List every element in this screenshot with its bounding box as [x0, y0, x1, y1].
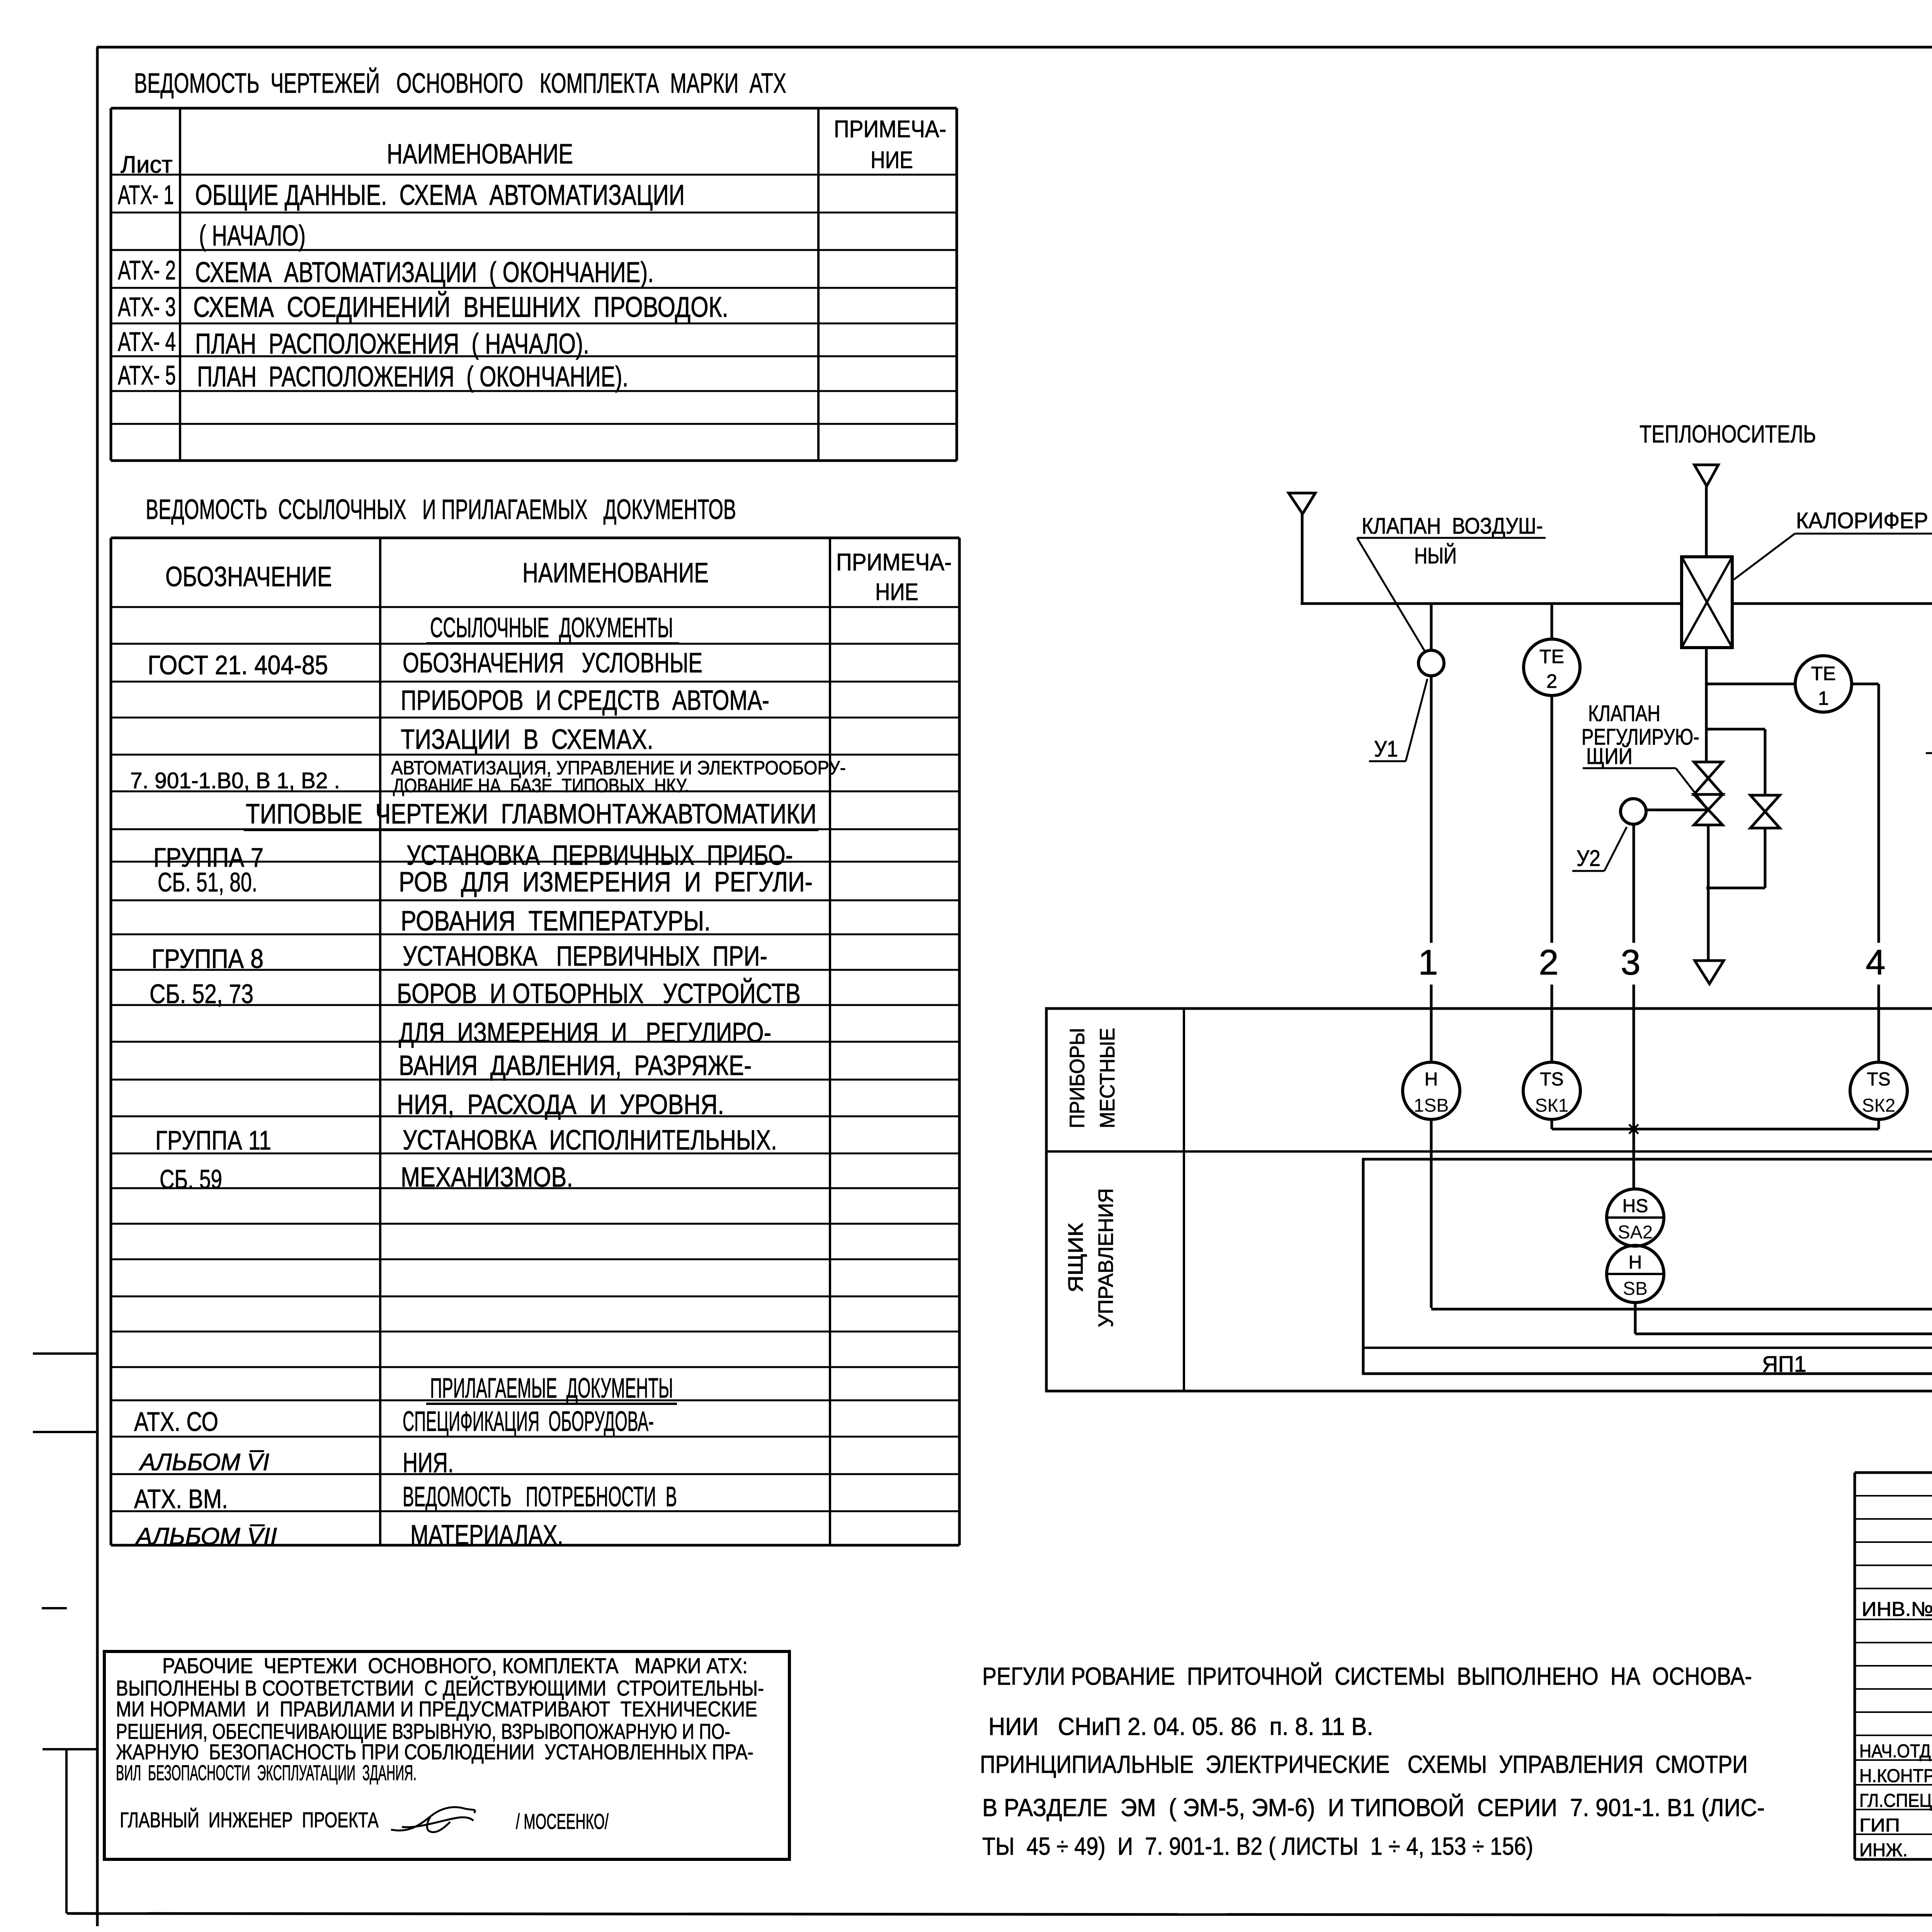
- svg-text:КЛАПАН ВОЗДУШ-: КЛАПАН ВОЗДУШ-: [1362, 514, 1543, 539]
- svg-text:АТХ- 2: АТХ- 2: [118, 255, 176, 285]
- svg-text:РАБОЧИЕ ЧЕРТЕЖИ ОСНОВНОГО, К: РАБОЧИЕ ЧЕРТЕЖИ ОСНОВНОГО, КОМПЛЕКТА МАР…: [162, 1653, 748, 1678]
- svg-text:АЛЬБОМ V̅II: АЛЬБОМ V̅II: [134, 1523, 277, 1550]
- svg-text:ТЕПЛОНОСИТЕЛЬ: ТЕПЛОНОСИТЕЛЬ: [1639, 420, 1816, 448]
- left lower outer edge: [65, 1749, 68, 1913]
- svg-text:НАИМЕНОВАНИЕ: НАИМЕНОВАНИЕ: [387, 139, 573, 170]
- notes box frame: [104, 1651, 789, 1859]
- svg-text:МЕХАНИЗМОВ.: МЕХАНИЗМОВ.: [401, 1162, 573, 1193]
- svg-text:НИЯ.: НИЯ.: [403, 1447, 454, 1478]
- chief engineer signature: [391, 1807, 475, 1832]
- svg-text:SК1: SК1: [1535, 1095, 1569, 1116]
- wire A collecting line1, SB1, TC/VT: [1431, 1308, 1932, 1311]
- svg-text:НИЕ: НИЕ: [871, 147, 913, 173]
- svg-text:ГРУППА 8: ГРУППА 8: [151, 944, 264, 974]
- svg-text:СБ. 51, 80.: СБ. 51, 80.: [158, 867, 257, 897]
- svg-text:ГЛАВНЫЙ ИНЖЕНЕР ПРОЕКТА: ГЛАВНЫЙ ИНЖЕНЕР ПРОЕКТА: [120, 1808, 379, 1832]
- selector HS/SA2: [1607, 1189, 1664, 1246]
- svg-text:ГОСТ 21. 404-85: ГОСТ 21. 404-85: [148, 650, 328, 680]
- svg-text:4: 4: [1866, 943, 1885, 982]
- svg-text:( НАЧАЛО): ( НАЧАЛО): [199, 219, 306, 252]
- svg-text:УСТАНОВКА ПЕРВИЧНЫХ ПРИ-: УСТАНОВКА ПЕРВИЧНЫХ ПРИ-: [403, 941, 767, 972]
- wire: supply air duct left part: [1301, 602, 1682, 605]
- svg-text:ПРИМЕЧА-: ПРИМЕЧА-: [836, 549, 952, 576]
- svg-text:СХЕМА АВТОМАТИЗАЦИИ ( ОКОНЧА: СХЕМА АВТОМАТИЗАЦИИ ( ОКОНЧАНИЕ).: [195, 256, 654, 288]
- svg-text:2: 2: [1546, 670, 1557, 692]
- svg-text:ПЛАН РАСПОЛОЖЕНИЯ ( НАЧАЛО).: ПЛАН РАСПОЛОЖЕНИЯ ( НАЧАЛО).: [195, 328, 589, 360]
- svg-text:ВАНИЯ ДАВЛЕНИЯ, РАЗРЯЖЕ-: ВАНИЯ ДАВЛЕНИЯ, РАЗРЯЖЕ-: [399, 1050, 752, 1081]
- instrument TE1: [1795, 656, 1852, 712]
- svg-text:ТЕ: ТЕ: [1539, 646, 1564, 667]
- svg-text:РОВ ДЛЯ ИЗМЕРЕНИЯ И РЕГУЛИ: РОВ ДЛЯ ИЗМЕРЕНИЯ И РЕГУЛИ-: [399, 867, 813, 898]
- svg-text:АТХ- 5: АТХ- 5: [118, 360, 176, 390]
- wire line 1 inside band: [1430, 1119, 1433, 1308]
- svg-text:Н.КОНТР.: Н.КОНТР.: [1859, 1766, 1932, 1786]
- svg-text:ВЕДОМОСТЬ ЧЕРТЕЖЕЙ ОСНОВНОГ: ВЕДОМОСТЬ ЧЕРТЕЖЕЙ ОСНОВНОГО КОМПЛЕКТА М…: [134, 67, 786, 99]
- frame top edge: [97, 46, 1932, 49]
- frame left edge: [96, 47, 99, 1926]
- svg-text:НАИМЕНОВАНИЕ: НАИМЕНОВАНИЕ: [522, 558, 709, 588]
- wire line 3 inside band: [1633, 1009, 1635, 1189]
- svg-text:3: 3: [1621, 943, 1640, 982]
- svg-text:ВИЛ БЕЗОПАСНОСТИ ЭКСПЛУАТАЦИ: ВИЛ БЕЗОПАСНОСТИ ЭКСПЛУАТАЦИИ ЗДАНИЯ.: [116, 1760, 417, 1785]
- svg-text:ВЕДОМОСТЬ ССЫЛОЧНЫХ И ПРИЛА: ВЕДОМОСТЬ ССЫЛОЧНЫХ И ПРИЛАГАЕМЫХ ДОКУМЕ…: [146, 494, 736, 525]
- svg-text:У1: У1: [1374, 736, 1398, 762]
- svg-text:АТХ. ВМ.: АТХ. ВМ.: [134, 1484, 228, 1514]
- svg-text:SВ: SВ: [1623, 1279, 1648, 1299]
- svg-text:Н: Н: [1629, 1252, 1642, 1273]
- wire B to alarm circuit: [1634, 1303, 1637, 1334]
- svg-text:ТЫ 45 ÷ 49) И 7. 901-1. В2: ТЫ 45 ÷ 49) И 7. 901-1. В2 ( ЛИСТЫ 1 ÷ 4…: [982, 1832, 1533, 1860]
- instrument TE2 on line 2: [1551, 604, 1553, 639]
- svg-text:ДОВАНИЕ НА БАЗЕ ТИПОВЫХ НКУ: ДОВАНИЕ НА БАЗЕ ТИПОВЫХ НКУ.: [393, 775, 689, 796]
- svg-text:Лист: Лист: [121, 151, 173, 178]
- svg-text:КЛАПАН: КЛАПАН: [1588, 701, 1660, 726]
- svg-text:НИЕ: НИЕ: [875, 579, 918, 605]
- heating inlet funnel: [1694, 465, 1718, 557]
- svg-text:ПРИБОРОВ И СРЕДСТВ АВТОМА-: ПРИБОРОВ И СРЕДСТВ АВТОМА-: [401, 685, 769, 716]
- air intake funnel: [1289, 493, 1315, 604]
- svg-text:ЩИЙ: ЩИЙ: [1586, 744, 1633, 769]
- svg-text:SК2: SК2: [1862, 1095, 1896, 1116]
- svg-text:АЛЬБОМ V̅I: АЛЬБОМ V̅I: [138, 1449, 269, 1476]
- svg-text:ОБЩИЕ ДАННЫЕ. СХЕМА АВТОМАТИ: ОБЩИЕ ДАННЫЕ. СХЕМА АВТОМАТИЗАЦИИ: [195, 179, 685, 211]
- svg-text:SА2: SА2: [1618, 1222, 1653, 1243]
- svg-text:ТS: ТS: [1867, 1069, 1890, 1090]
- svg-text:ПРИЛАГАЕМЫЕ ДОКУМЕНТЫ: ПРИЛАГАЕМЫЕ ДОКУМЕНТЫ: [430, 1373, 673, 1404]
- actuator У2: [1621, 799, 1646, 824]
- svg-text:ГЛ.СПЕЦ.: ГЛ.СПЕЦ.: [1859, 1791, 1932, 1811]
- svg-text:В РАЗДЕЛЕ ЭМ ( ЭМ-5, ЭМ-6): В РАЗДЕЛЕ ЭМ ( ЭМ-5, ЭМ-6) И ТИПОВОЙ СЕР…: [982, 1793, 1765, 1821]
- svg-text:Н: Н: [1425, 1069, 1438, 1090]
- wire: hot water pipe: [1705, 648, 1708, 762]
- bypass pipe: [1706, 728, 1765, 731]
- wire: supply air duct right part: [1732, 602, 1932, 605]
- svg-text:АТХ. СО: АТХ. СО: [134, 1406, 218, 1437]
- heater Калорифер: [1682, 557, 1732, 648]
- svg-text:ГРУППА 11: ГРУППА 11: [155, 1125, 271, 1155]
- local thermostat TS/SK1: [1523, 1062, 1580, 1119]
- svg-text:УПРАВЛЕНИЯ: УПРАВЛЕНИЯ: [1094, 1188, 1117, 1327]
- svg-text:НИИ СНиП 2. 04. 05. 86 п. 8: НИИ СНиП 2. 04. 05. 86 п. 8. 11 В.: [988, 1713, 1373, 1740]
- table 2: reference documents grid: [111, 537, 959, 539]
- line 1 into band: [1430, 1009, 1433, 1062]
- wire: TE1 branch left: [1706, 683, 1795, 685]
- wire: drain pipe: [1707, 825, 1710, 959]
- wire line 4 vertical: [1878, 684, 1880, 943]
- svg-text:1: 1: [1418, 943, 1438, 982]
- drain funnel: [1695, 961, 1724, 984]
- svg-text:НS: НS: [1622, 1196, 1648, 1216]
- fold tick 2: [33, 1431, 97, 1433]
- svg-text:УСТАНОВКА ИСПОЛНИТЕЛЬНЫХ.: УСТАНОВКА ИСПОЛНИТЕЛЬНЫХ.: [403, 1125, 777, 1156]
- svg-text:У2: У2: [1577, 846, 1600, 871]
- svg-text:ПЛАН РАСПОЛОЖЕНИЯ ( ОКОНЧАНИ: ПЛАН РАСПОЛОЖЕНИЯ ( ОКОНЧАНИЕ).: [197, 361, 628, 393]
- svg-text:ОБОЗНАЧЕНИЕ: ОБОЗНАЧЕНИЕ: [165, 561, 332, 592]
- control box ЯП1: [1363, 1159, 1932, 1374]
- svg-text:ТS: ТS: [1540, 1069, 1563, 1090]
- svg-text:РЕГУЛИ РОВАНИЕ ПРИТОЧНОЙ СИС: РЕГУЛИ РОВАНИЕ ПРИТОЧНОЙ СИСТЕМЫ ВЫПОЛНЕ…: [982, 1662, 1752, 1690]
- control valve two bowties: [1694, 762, 1723, 794]
- bypass valve: [1750, 795, 1780, 828]
- svg-text:ПРИНЦИПИАЛЬНЫЕ ЭЛЕКТРИЧЕСКИЕ: ПРИНЦИПИАЛЬНЫЕ ЭЛЕКТРИЧЕСКИЕ СХЕМЫ УПРАВ…: [980, 1750, 1748, 1778]
- junction mark line3/SK wire: [1629, 1124, 1638, 1134]
- local pushbutton H/1SB: [1403, 1062, 1460, 1119]
- svg-text:СБ. 59: СБ. 59: [160, 1164, 222, 1194]
- svg-text:ОБОЗНАЧЕНИЯ УСЛОВНЫЕ: ОБОЗНАЧЕНИЯ УСЛОВНЫЕ: [403, 648, 702, 679]
- svg-text:7. 901-1.В0, В 1, В2 .: 7. 901-1.В0, В 1, В2 .: [130, 768, 340, 793]
- svg-text:АТХ- 1: АТХ- 1: [118, 180, 174, 210]
- svg-text:2: 2: [1539, 943, 1558, 982]
- svg-text:МИ НОРМАМИ И ПРАВИЛАМИ И ПРЕ: МИ НОРМАМИ И ПРАВИЛАМИ И ПРЕДУСМАТРИВАЮТ…: [116, 1697, 757, 1721]
- damper У1 on line 1: [1430, 604, 1433, 651]
- pushbutton H/SB: [1607, 1245, 1664, 1303]
- fold tick 3: [42, 1607, 67, 1609]
- svg-text:КАЛОРИФЕР: КАЛОРИФЕР: [1796, 508, 1928, 533]
- svg-text:ТИПОВЫЕ ЧЕРТЕЖИ ГЛАВМОНТАЖАВ: ТИПОВЫЕ ЧЕРТЕЖИ ГЛАВМОНТАЖАВТОМАТИКИ: [246, 799, 816, 830]
- svg-text:ДЛЯ ИЗМЕРЕНИЯ И РЕГУЛИРО-: ДЛЯ ИЗМЕРЕНИЯ И РЕГУЛИРО-: [399, 1017, 771, 1048]
- svg-text:ИНВ.№: ИНВ.№: [1862, 1598, 1932, 1621]
- svg-text:ПРИМЕЧА-: ПРИМЕЧА-: [834, 116, 946, 143]
- svg-text:УСТАНОВКА ПЕРВИЧНЫХ ПРИБО-: УСТАНОВКА ПЕРВИЧНЫХ ПРИБО-: [406, 840, 793, 871]
- fold tick 1: [33, 1352, 97, 1355]
- leader to У2: [1604, 827, 1627, 871]
- local thermostat TS/SK2: [1850, 1062, 1907, 1119]
- svg-text:МЕСТНЫЕ: МЕСТНЫЕ: [1096, 1028, 1119, 1128]
- instrument band frame: [1046, 1009, 1932, 1391]
- wire line 3 from У2: [1633, 824, 1635, 943]
- svg-text:ССЫЛОЧНЫЕ ДОКУМЕНТЫ: ССЫЛОЧНЫЕ ДОКУМЕНТЫ: [430, 612, 673, 643]
- svg-text:НАЧ.ОТД: НАЧ.ОТД: [1859, 1741, 1931, 1762]
- svg-text:ЯП1: ЯП1: [1762, 1352, 1806, 1377]
- leader to heater: [1734, 534, 1795, 580]
- svg-text:ПРИБОРЫ: ПРИБОРЫ: [1066, 1028, 1089, 1128]
- svg-text:НЫЙ: НЫЙ: [1414, 543, 1457, 568]
- line 4 into band: [1878, 1009, 1880, 1062]
- svg-text:ГИП: ГИП: [1859, 1815, 1900, 1836]
- svg-text:РОВАНИЯ ТЕМПЕРАТУРЫ.: РОВАНИЯ ТЕМПЕРАТУРЫ.: [401, 906, 711, 937]
- wire: TE1 branch right: [1852, 683, 1879, 685]
- line 2 into band: [1551, 1009, 1553, 1062]
- svg-text:ВЕДОМОСТЬ ПОТРЕБНОСТИ В: ВЕДОМОСТЬ ПОТРЕБНОСТИ В: [403, 1481, 677, 1512]
- svg-text:БОРОВ И ОТБОРНЫХ УСТРОЙСТВ: БОРОВ И ОТБОРНЫХ УСТРОЙСТВ: [397, 978, 801, 1009]
- svg-text:1: 1: [1818, 687, 1829, 709]
- svg-text:/ МОСЕЕНКО/: / МОСЕЕНКО/: [516, 1809, 609, 1833]
- svg-text:СХЕМА СОЕДИНЕНИЙ ВНЕШНИХ ПР: СХЕМА СОЕДИНЕНИЙ ВНЕШНИХ ПРОВОДОК.: [193, 291, 728, 323]
- fold tick 4: [43, 1748, 97, 1750]
- svg-text:АТХ- 3: АТХ- 3: [118, 292, 176, 322]
- svg-text:АТХ- 4: АТХ- 4: [118, 327, 176, 357]
- svg-text:СПЕЦИФИКАЦИЯ ОБОРУДОВА-: СПЕЦИФИКАЦИЯ ОБОРУДОВА-: [403, 1406, 654, 1437]
- leader to damper: [1357, 538, 1425, 652]
- title block frame: [1854, 1473, 1856, 1859]
- leader to У1: [1406, 679, 1427, 761]
- svg-text:ТИЗАЦИИ В СХЕМАХ.: ТИЗАЦИИ В СХЕМАХ.: [401, 724, 653, 755]
- svg-text:ТЕ: ТЕ: [1811, 663, 1836, 684]
- leader to control valve: [1676, 768, 1708, 810]
- table 1: drawing register grid: [111, 107, 957, 110]
- svg-text:ЯЩИК: ЯЩИК: [1064, 1223, 1087, 1293]
- svg-text:1SB: 1SB: [1414, 1095, 1449, 1116]
- svg-text:МАТЕРИАЛАХ.: МАТЕРИАЛАХ.: [410, 1520, 563, 1551]
- svg-text:СБ. 52, 73: СБ. 52, 73: [150, 979, 253, 1009]
- wire SK1 to SK2: [1551, 1119, 1553, 1129]
- svg-text:НИЯ, РАСХОДА И УРОВНЯ.: НИЯ, РАСХОДА И УРОВНЯ.: [397, 1089, 724, 1120]
- frame bottom edge: [67, 1913, 1932, 1916]
- svg-text:ИНЖ.: ИНЖ.: [1859, 1840, 1908, 1861]
